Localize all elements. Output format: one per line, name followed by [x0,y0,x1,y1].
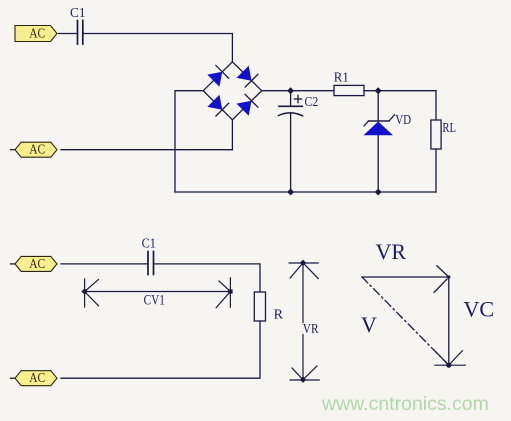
wire C1 to R [154,264,261,292]
svg-text:VD: VD [395,113,411,128]
wire bridge bottom vertex down [231,120,233,150]
diode D4 (bottom-right edge, points to right vertex) [237,94,258,115]
wire AC3 to C1 [61,263,148,265]
resistor R1 [334,71,364,96]
svg-text:C1: C1 [142,237,156,252]
node junction at C2 bottom [287,189,294,196]
svg-text:AC: AC [29,257,45,272]
diode D3 (bottom-left edge, points to bottom vertex) [207,95,228,116]
wire C1 to bridge top [83,34,233,62]
svg-text:C2: C2 [305,95,319,110]
svg-text:C1: C1 [70,6,86,21]
capacitor C1 (top) [70,6,86,44]
dimension arrow VR (across R) [289,260,319,383]
capacitor C1 (bottom circuit) [142,237,156,275]
svg-text:AC: AC [29,143,45,158]
capacitor C2 (electrolytic) [279,91,319,192]
svg-text:VR: VR [376,239,407,264]
svg-text:CV1: CV1 [144,293,165,309]
wire R to AC4 [61,321,260,378]
node junction at VD top [375,87,382,94]
svg-text:AC: AC [29,26,45,41]
diode D2 (top-right edge, points to right vertex) [237,66,258,87]
bridge rectifier diamond [203,62,262,120]
node junction at VD bottom [375,189,382,196]
wire bottom rail [175,191,436,193]
wire bridge right vertex to top rail [262,90,334,92]
zener diode VD [364,91,412,192]
svg-text:VR: VR [303,322,319,337]
wire AC2 to bridge bottom [61,149,232,151]
wire bridge left vertex to left rail [175,91,203,192]
vector VC (vertical) [449,277,494,365]
resistor R [254,292,283,322]
svg-text:VC: VC [464,297,495,322]
wire R1 to right corner [364,90,436,92]
AC terminal flag AC3 [11,256,58,272]
AC terminal flag AC2 (lower input of top circuit) [11,142,58,158]
svg-text:RL: RL [442,121,456,136]
svg-text:V: V [361,312,377,337]
diode D1 (top-left edge, points to top vertex) [207,65,228,86]
node junction at C2 top [287,87,294,94]
svg-text:AC: AC [29,371,45,386]
AC terminal flag AC1 (top input) [15,26,57,42]
dimension arrow CV1 [81,278,232,309]
vector VR (horizontal) [362,239,449,292]
svg-text:R: R [274,307,284,322]
wire AC1 to C1 [59,33,78,35]
AC terminal flag AC4 [11,371,58,387]
svg-text:www.cntronics.com: www.cntronics.com [321,393,489,415]
vector arrowhead at bottom vertex [435,275,465,367]
svg-text:R1: R1 [334,71,349,86]
vector V (diagonal, dash-dot) [361,277,449,365]
resistor RL [431,91,456,192]
